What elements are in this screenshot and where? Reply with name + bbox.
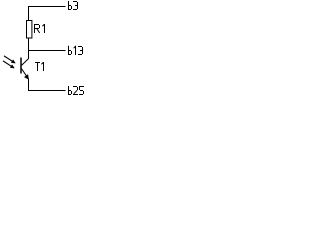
wire <box>29 50 66 52</box>
node b13 <box>69 46 83 55</box>
light arrow <box>3 61 14 68</box>
wire <box>29 79 66 91</box>
wire <box>29 7 66 21</box>
label T1 <box>35 62 44 71</box>
phototransistor T1 <box>21 58 29 80</box>
light arrow <box>4 56 15 63</box>
resistor R1 <box>27 21 32 39</box>
label R1 <box>35 24 45 33</box>
node b3 <box>69 1 78 10</box>
wire <box>28 38 30 59</box>
node b25 <box>69 86 85 95</box>
